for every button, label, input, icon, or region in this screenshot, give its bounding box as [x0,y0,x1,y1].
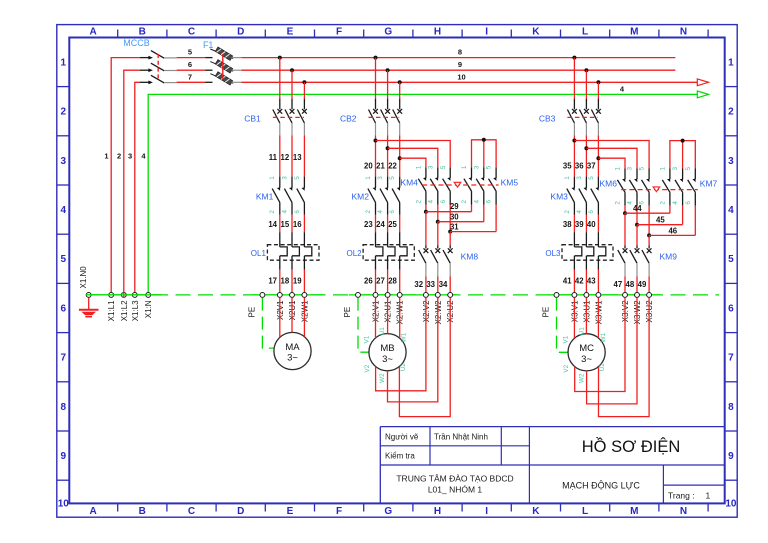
svg-text:7: 7 [728,353,734,364]
svg-text:KM2: KM2 [352,192,370,202]
svg-text:L: L [582,506,588,517]
svg-text:2: 2 [365,210,372,214]
svg-text:3~: 3~ [287,353,298,364]
svg-text:42: 42 [575,277,584,286]
svg-text:F: F [336,27,342,38]
svg-text:I: I [485,27,488,38]
svg-text:KM1: KM1 [256,192,274,202]
svg-text:OL1: OL1 [251,249,267,258]
svg-text:2: 2 [461,199,468,203]
svg-text:1: 1 [660,166,667,170]
svg-text:16: 16 [293,220,302,229]
svg-text:1: 1 [615,166,622,170]
svg-text:36: 36 [575,162,584,171]
svg-text:43: 43 [587,277,596,286]
svg-text:3: 3 [281,176,288,180]
svg-text:KM5: KM5 [501,177,519,187]
svg-text:W2: W2 [578,373,585,383]
svg-text:KM7: KM7 [700,179,718,189]
svg-text:17: 17 [268,277,277,286]
svg-text:20: 20 [364,162,373,171]
svg-text:9: 9 [728,451,734,462]
svg-text:CB3: CB3 [539,113,556,123]
svg-text:1: 1 [564,176,571,180]
svg-text:W1: W1 [600,332,607,342]
svg-text:21: 21 [376,162,385,171]
svg-text:41: 41 [563,277,572,286]
svg-text:MCCB: MCCB [123,38,150,48]
svg-text:3: 3 [61,156,67,167]
svg-text:G: G [384,506,392,517]
svg-text:5: 5 [639,166,646,170]
svg-text:12: 12 [281,153,290,162]
svg-text:18: 18 [281,277,290,286]
svg-text:H: H [434,506,441,517]
svg-text:N: N [680,506,687,517]
svg-text:6: 6 [188,60,192,69]
svg-text:N: N [680,27,687,38]
svg-text:2: 2 [660,201,667,205]
svg-text:X1.N0: X1.N0 [79,266,88,289]
svg-text:CB1: CB1 [244,113,261,123]
svg-text:Người vẽ: Người vẽ [385,433,419,442]
svg-text:2: 2 [269,210,276,214]
svg-text:U2: U2 [400,363,407,372]
svg-text:C: C [188,27,195,38]
svg-text:44: 44 [633,204,642,213]
svg-text:5: 5 [486,165,493,169]
svg-text:U1: U1 [379,327,386,336]
svg-text:5: 5 [389,176,396,180]
svg-text:X1:L3: X1:L3 [131,300,140,321]
svg-text:E: E [287,506,294,517]
svg-text:E: E [287,27,294,38]
svg-text:5: 5 [685,166,692,170]
svg-text:6: 6 [728,303,734,314]
svg-text:2: 2 [564,210,571,214]
svg-text:MẠCH ĐỘNG LỰC: MẠCH ĐỘNG LỰC [562,481,640,491]
svg-text:14: 14 [268,220,277,229]
svg-text:8: 8 [728,402,734,413]
svg-text:4: 4 [61,205,67,216]
svg-text:6: 6 [588,210,595,214]
svg-text:37: 37 [587,162,596,171]
svg-text:29: 29 [450,202,459,211]
svg-text:X1:L2: X1:L2 [120,300,129,321]
svg-text:1: 1 [365,176,372,180]
svg-text:5: 5 [188,48,192,57]
svg-text:13: 13 [293,153,302,162]
svg-text:15: 15 [281,220,290,229]
svg-text:OL2: OL2 [346,249,362,258]
svg-text:A: A [89,506,96,517]
svg-text:1: 1 [706,491,711,501]
svg-text:V2: V2 [364,364,371,372]
svg-text:L01_ NHÓM 1: L01_ NHÓM 1 [428,485,483,495]
svg-text:V1: V1 [364,335,371,343]
svg-text:23: 23 [364,220,373,229]
svg-text:4: 4 [377,210,384,214]
svg-text:Kiểm tra: Kiểm tra [385,452,415,461]
svg-text:27: 27 [376,277,385,286]
svg-text:M: M [630,506,638,517]
svg-text:B: B [139,27,146,38]
svg-text:MA: MA [285,342,300,353]
svg-text:OL3: OL3 [545,249,561,258]
svg-text:6: 6 [685,201,692,205]
svg-text:8: 8 [61,402,67,413]
svg-text:1: 1 [104,152,108,161]
svg-text:3: 3 [473,165,480,169]
svg-text:KM9: KM9 [660,251,678,261]
svg-text:4: 4 [427,199,434,203]
svg-text:F1: F1 [203,40,214,50]
svg-text:3: 3 [377,176,384,180]
svg-text:L: L [582,27,588,38]
svg-text:25: 25 [388,220,397,229]
svg-text:F: F [336,506,342,517]
svg-text:9: 9 [61,451,67,462]
svg-text:CB2: CB2 [340,113,357,123]
svg-text:W2: W2 [379,373,386,383]
svg-text:48: 48 [626,280,635,289]
svg-text:4: 4 [281,210,288,214]
svg-text:1: 1 [461,165,468,169]
svg-text:6: 6 [294,210,301,214]
svg-text:10: 10 [58,498,70,509]
svg-text:28: 28 [388,277,397,286]
svg-text:10: 10 [725,498,737,509]
svg-text:38: 38 [563,220,572,229]
svg-text:PE: PE [248,307,257,318]
svg-text:4: 4 [728,205,734,216]
svg-text:2: 2 [61,107,67,118]
svg-text:8: 8 [458,48,462,57]
svg-text:1: 1 [61,57,67,68]
svg-text:46: 46 [668,227,677,236]
svg-text:6: 6 [440,199,447,203]
svg-text:I: I [485,506,488,517]
svg-text:2: 2 [615,201,622,205]
svg-text:6: 6 [61,303,67,314]
svg-text:V1: V1 [563,335,570,343]
svg-text:K: K [532,27,540,38]
svg-text:40: 40 [587,220,596,229]
svg-text:35: 35 [563,162,572,171]
svg-text:10: 10 [457,72,465,81]
svg-text:MC: MC [579,343,594,354]
svg-text:6: 6 [389,210,396,214]
svg-text:H: H [434,27,441,38]
svg-text:V2: V2 [563,364,570,372]
svg-text:U2: U2 [599,363,606,372]
svg-text:30: 30 [450,213,459,222]
svg-text:1: 1 [269,176,276,180]
svg-text:7: 7 [188,72,192,81]
svg-text:K: K [532,506,540,517]
svg-text:39: 39 [575,220,584,229]
svg-text:KM4: KM4 [400,177,418,187]
svg-text:34: 34 [439,280,448,289]
svg-text:3: 3 [672,166,679,170]
svg-text:PE: PE [343,307,352,318]
svg-text:KM6: KM6 [600,179,618,189]
svg-text:2: 2 [728,107,734,118]
svg-text:2: 2 [416,199,423,203]
svg-text:11: 11 [269,153,278,162]
svg-text:31: 31 [450,223,459,232]
svg-text:B: B [139,506,146,517]
svg-text:Trang :: Trang : [668,491,695,501]
svg-text:9: 9 [458,60,462,69]
svg-text:26: 26 [364,277,373,286]
svg-text:W1: W1 [401,332,408,342]
svg-text:22: 22 [388,162,397,171]
svg-text:4: 4 [473,199,480,203]
svg-text:24: 24 [376,220,385,229]
svg-text:KM3: KM3 [550,192,568,202]
svg-text:D: D [237,27,244,38]
svg-text:7: 7 [61,353,67,364]
svg-text:KM8: KM8 [461,251,479,261]
svg-text:1: 1 [416,165,423,169]
svg-text:33: 33 [426,280,435,289]
svg-text:X1:L1: X1:L1 [107,300,116,321]
svg-text:U1: U1 [578,327,585,336]
svg-text:5: 5 [728,254,734,265]
svg-text:Trần Nhật Ninh: Trần Nhật Ninh [434,433,488,442]
svg-text:3~: 3~ [382,354,393,365]
svg-text:32: 32 [414,280,423,289]
svg-text:3: 3 [576,176,583,180]
svg-text:3: 3 [427,165,434,169]
svg-text:1: 1 [728,57,734,68]
svg-text:G: G [384,27,392,38]
svg-text:47: 47 [614,280,623,289]
svg-text:3: 3 [627,166,634,170]
svg-text:5: 5 [294,176,301,180]
svg-text:5: 5 [588,176,595,180]
svg-text:MB: MB [380,343,394,354]
svg-text:C: C [188,506,195,517]
svg-text:45: 45 [656,215,665,224]
svg-text:6: 6 [486,199,493,203]
svg-text:X1:N: X1:N [144,300,153,318]
svg-text:3: 3 [128,152,132,161]
svg-text:M: M [630,27,638,38]
svg-text:4: 4 [576,210,583,214]
svg-text:4: 4 [672,201,679,205]
svg-text:3: 3 [728,156,734,167]
svg-text:D: D [237,506,244,517]
svg-text:3~: 3~ [581,354,592,365]
svg-text:PE: PE [542,307,551,318]
svg-text:2: 2 [117,152,121,161]
svg-text:A: A [89,27,96,38]
svg-text:TRUNG TÂM ĐÀO TẠO BDCD: TRUNG TÂM ĐÀO TẠO BDCD [396,474,513,484]
svg-text:HỒ SƠ ĐIỆN: HỒ SƠ ĐIỆN [582,437,681,456]
svg-text:19: 19 [293,277,302,286]
svg-text:5: 5 [61,254,67,265]
svg-text:5: 5 [440,165,447,169]
svg-text:49: 49 [638,280,647,289]
